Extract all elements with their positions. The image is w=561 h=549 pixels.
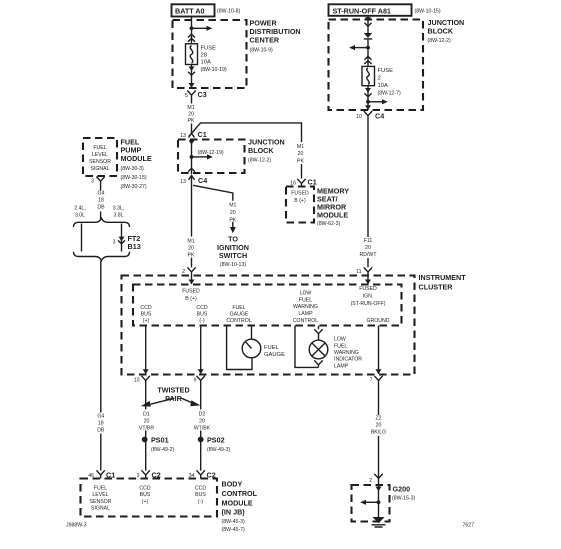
svg-text:20: 20 bbox=[365, 245, 371, 251]
svg-text:F11: F11 bbox=[364, 238, 373, 244]
svg-text:7: 7 bbox=[370, 378, 373, 384]
svg-text:(8W-15-3): (8W-15-3) bbox=[392, 496, 416, 502]
svg-text:M1: M1 bbox=[229, 203, 236, 209]
svg-text:3: 3 bbox=[113, 239, 116, 245]
svg-text:(8W-10-9): (8W-10-9) bbox=[250, 48, 274, 54]
svg-text:CCD: CCD bbox=[195, 485, 206, 491]
svg-text:(8W-45-3): (8W-45-3) bbox=[222, 519, 246, 525]
svg-text:G200: G200 bbox=[393, 484, 411, 493]
svg-text:20: 20 bbox=[188, 245, 194, 251]
svg-text:C1: C1 bbox=[198, 130, 207, 139]
svg-text:FUSED: FUSED bbox=[359, 286, 377, 292]
svg-text:20: 20 bbox=[230, 210, 236, 216]
svg-text:(8W-62-3): (8W-62-3) bbox=[317, 221, 341, 227]
svg-text:LOW: LOW bbox=[334, 337, 346, 343]
svg-text:FUSE: FUSE bbox=[201, 46, 217, 52]
svg-text:20: 20 bbox=[298, 151, 304, 157]
svg-text:20: 20 bbox=[376, 423, 382, 429]
svg-text:SWITCH: SWITCH bbox=[219, 251, 247, 260]
svg-text:(8W-12-2): (8W-12-2) bbox=[428, 38, 452, 44]
svg-text:(IN JB): (IN JB) bbox=[222, 507, 246, 516]
svg-text:LOW: LOW bbox=[300, 291, 312, 297]
svg-text:28: 28 bbox=[201, 53, 207, 59]
svg-text:PK: PK bbox=[229, 218, 236, 224]
svg-text:GAUGE: GAUGE bbox=[264, 352, 285, 358]
svg-text:B (+): B (+) bbox=[185, 296, 197, 302]
svg-text:BUS: BUS bbox=[195, 492, 206, 498]
svg-text:PK: PK bbox=[188, 252, 195, 258]
svg-text:16: 16 bbox=[290, 180, 296, 186]
svg-text:(8W-10-8): (8W-10-8) bbox=[217, 9, 241, 15]
svg-text:10: 10 bbox=[134, 378, 140, 384]
svg-text:VT/BR: VT/BR bbox=[139, 425, 155, 431]
svg-text:G4: G4 bbox=[98, 190, 105, 196]
svg-text:20: 20 bbox=[144, 418, 150, 424]
svg-text:SENSOR: SENSOR bbox=[90, 499, 112, 505]
svg-text:C4: C4 bbox=[198, 176, 207, 185]
svg-text:INDICATOR: INDICATOR bbox=[334, 357, 362, 363]
svg-text:BUS: BUS bbox=[140, 492, 151, 498]
svg-text:LAMP: LAMP bbox=[298, 311, 313, 317]
svg-text:(8W-30-27): (8W-30-27) bbox=[121, 184, 147, 190]
svg-text:FUEL: FUEL bbox=[264, 345, 280, 351]
svg-text:M1: M1 bbox=[187, 238, 194, 244]
svg-text:C4: C4 bbox=[375, 111, 384, 120]
svg-text:CONTROL: CONTROL bbox=[293, 318, 318, 324]
svg-text:J988W-3: J988W-3 bbox=[66, 523, 87, 529]
svg-text:10A: 10A bbox=[378, 83, 388, 89]
svg-text:13: 13 bbox=[180, 133, 186, 139]
svg-text:(8W-10-19): (8W-10-19) bbox=[201, 67, 227, 73]
svg-text:WT/BK: WT/BK bbox=[194, 425, 211, 431]
svg-text:(+): (+) bbox=[143, 318, 150, 324]
svg-text:MODULE: MODULE bbox=[121, 154, 152, 163]
svg-text:5: 5 bbox=[185, 93, 188, 99]
svg-text:PAIR: PAIR bbox=[165, 394, 182, 403]
svg-text:BK/LG: BK/LG bbox=[371, 430, 386, 436]
svg-text:3.0L: 3.0L bbox=[75, 213, 85, 219]
svg-text:(8W-49-2): (8W-49-2) bbox=[151, 447, 175, 453]
svg-text:(ST-RUN-OFF): (ST-RUN-OFF) bbox=[351, 301, 386, 307]
svg-text:LEVEL: LEVEL bbox=[92, 492, 108, 498]
svg-text:(8W-45-7): (8W-45-7) bbox=[222, 527, 246, 533]
svg-text:(+): (+) bbox=[142, 499, 149, 505]
svg-text:IGN.: IGN. bbox=[363, 294, 374, 300]
svg-text:Z2: Z2 bbox=[375, 416, 381, 422]
svg-text:CENTER: CENTER bbox=[250, 36, 280, 45]
svg-text:(8W-10-13): (8W-10-13) bbox=[220, 262, 246, 268]
svg-text:MODULE: MODULE bbox=[317, 210, 348, 219]
svg-text:(-): (-) bbox=[199, 318, 204, 324]
svg-text:WARNING: WARNING bbox=[334, 350, 359, 356]
svg-text:SENSOR: SENSOR bbox=[89, 159, 111, 165]
svg-text:PS01: PS01 bbox=[151, 436, 169, 445]
svg-text:BODY: BODY bbox=[222, 479, 243, 488]
svg-text:D1: D1 bbox=[143, 411, 150, 417]
svg-text:(8W-12-2): (8W-12-2) bbox=[248, 158, 272, 164]
svg-text:18: 18 bbox=[98, 421, 104, 427]
svg-text:9: 9 bbox=[194, 378, 197, 384]
svg-text:BUS: BUS bbox=[197, 312, 208, 318]
svg-text:3: 3 bbox=[137, 473, 140, 479]
svg-text:(8W-12-19): (8W-12-19) bbox=[198, 150, 224, 156]
svg-text:B13: B13 bbox=[128, 242, 141, 251]
svg-text:2.4L,: 2.4L, bbox=[74, 206, 86, 212]
svg-text:DB: DB bbox=[97, 428, 105, 434]
svg-text:C1: C1 bbox=[308, 177, 317, 186]
svg-text:CONTROL: CONTROL bbox=[226, 318, 251, 324]
svg-text:CCD: CCD bbox=[139, 485, 150, 491]
svg-text:20: 20 bbox=[199, 418, 205, 424]
svg-text:7627: 7627 bbox=[463, 523, 475, 529]
svg-text:FUSED: FUSED bbox=[182, 289, 200, 295]
svg-text:PS02: PS02 bbox=[207, 436, 225, 445]
svg-text:G4: G4 bbox=[97, 414, 104, 420]
svg-text:LAMP: LAMP bbox=[334, 363, 349, 369]
svg-text:(8W-30-3): (8W-30-3) bbox=[121, 166, 145, 172]
svg-text:M1: M1 bbox=[297, 144, 304, 150]
svg-text:PK: PK bbox=[297, 158, 304, 164]
svg-text:M1: M1 bbox=[187, 105, 194, 111]
svg-text:BLOCK: BLOCK bbox=[248, 146, 274, 155]
svg-text:FUSE: FUSE bbox=[378, 68, 394, 74]
svg-text:ST-RUN-OFF A81: ST-RUN-OFF A81 bbox=[333, 6, 391, 15]
svg-text:(8W-12-7): (8W-12-7) bbox=[378, 91, 402, 97]
svg-text:CCD: CCD bbox=[196, 305, 207, 311]
svg-text:BLOCK: BLOCK bbox=[428, 27, 454, 36]
svg-text:3.8L: 3.8L bbox=[113, 213, 123, 219]
svg-text:2: 2 bbox=[182, 269, 185, 275]
svg-text:FUEL: FUEL bbox=[93, 145, 106, 151]
svg-text:GAUGE: GAUGE bbox=[230, 312, 249, 318]
svg-text:INSTRUMENT: INSTRUMENT bbox=[419, 273, 467, 282]
svg-text:CLUSTER: CLUSTER bbox=[419, 282, 454, 291]
svg-text:SIGNAL: SIGNAL bbox=[90, 166, 109, 172]
svg-text:FUEL: FUEL bbox=[94, 485, 107, 491]
svg-text:LEVEL: LEVEL bbox=[92, 152, 108, 158]
svg-text:CCD: CCD bbox=[140, 305, 151, 311]
svg-text:SIGNAL: SIGNAL bbox=[91, 506, 110, 512]
svg-text:3: 3 bbox=[91, 178, 94, 184]
svg-text:FUEL: FUEL bbox=[232, 305, 245, 311]
svg-text:(8W-30-15): (8W-30-15) bbox=[121, 175, 147, 181]
svg-text:11: 11 bbox=[356, 269, 361, 275]
svg-text:MODULE: MODULE bbox=[222, 498, 253, 507]
svg-text:(-): (-) bbox=[198, 499, 203, 505]
svg-text:(8W-49-3): (8W-49-3) bbox=[207, 447, 231, 453]
svg-text:BUS: BUS bbox=[141, 312, 152, 318]
svg-text:2: 2 bbox=[369, 478, 372, 484]
svg-text:FUEL: FUEL bbox=[299, 297, 312, 303]
svg-text:10: 10 bbox=[356, 114, 362, 120]
svg-text:FUEL: FUEL bbox=[334, 343, 347, 349]
svg-text:C3: C3 bbox=[198, 90, 207, 99]
svg-text:(8W-10-15): (8W-10-15) bbox=[415, 9, 441, 15]
svg-text:2: 2 bbox=[378, 76, 381, 82]
svg-text:GROUND: GROUND bbox=[366, 318, 389, 324]
svg-text:B (+): B (+) bbox=[294, 198, 306, 204]
svg-text:D2: D2 bbox=[199, 411, 206, 417]
svg-text:PK: PK bbox=[188, 118, 195, 124]
svg-text:20: 20 bbox=[188, 112, 194, 118]
svg-text:CONTROL: CONTROL bbox=[222, 489, 258, 498]
svg-text:18: 18 bbox=[98, 197, 104, 203]
svg-text:WARNING: WARNING bbox=[293, 304, 318, 310]
svg-text:10A: 10A bbox=[201, 60, 211, 66]
svg-text:FUSED: FUSED bbox=[291, 190, 309, 196]
svg-text:3.3L,: 3.3L, bbox=[113, 206, 125, 212]
svg-text:13: 13 bbox=[180, 179, 186, 185]
svg-text:BATT A0: BATT A0 bbox=[175, 7, 205, 16]
svg-text:RD/WT: RD/WT bbox=[360, 252, 378, 258]
svg-text:DB: DB bbox=[97, 204, 105, 210]
